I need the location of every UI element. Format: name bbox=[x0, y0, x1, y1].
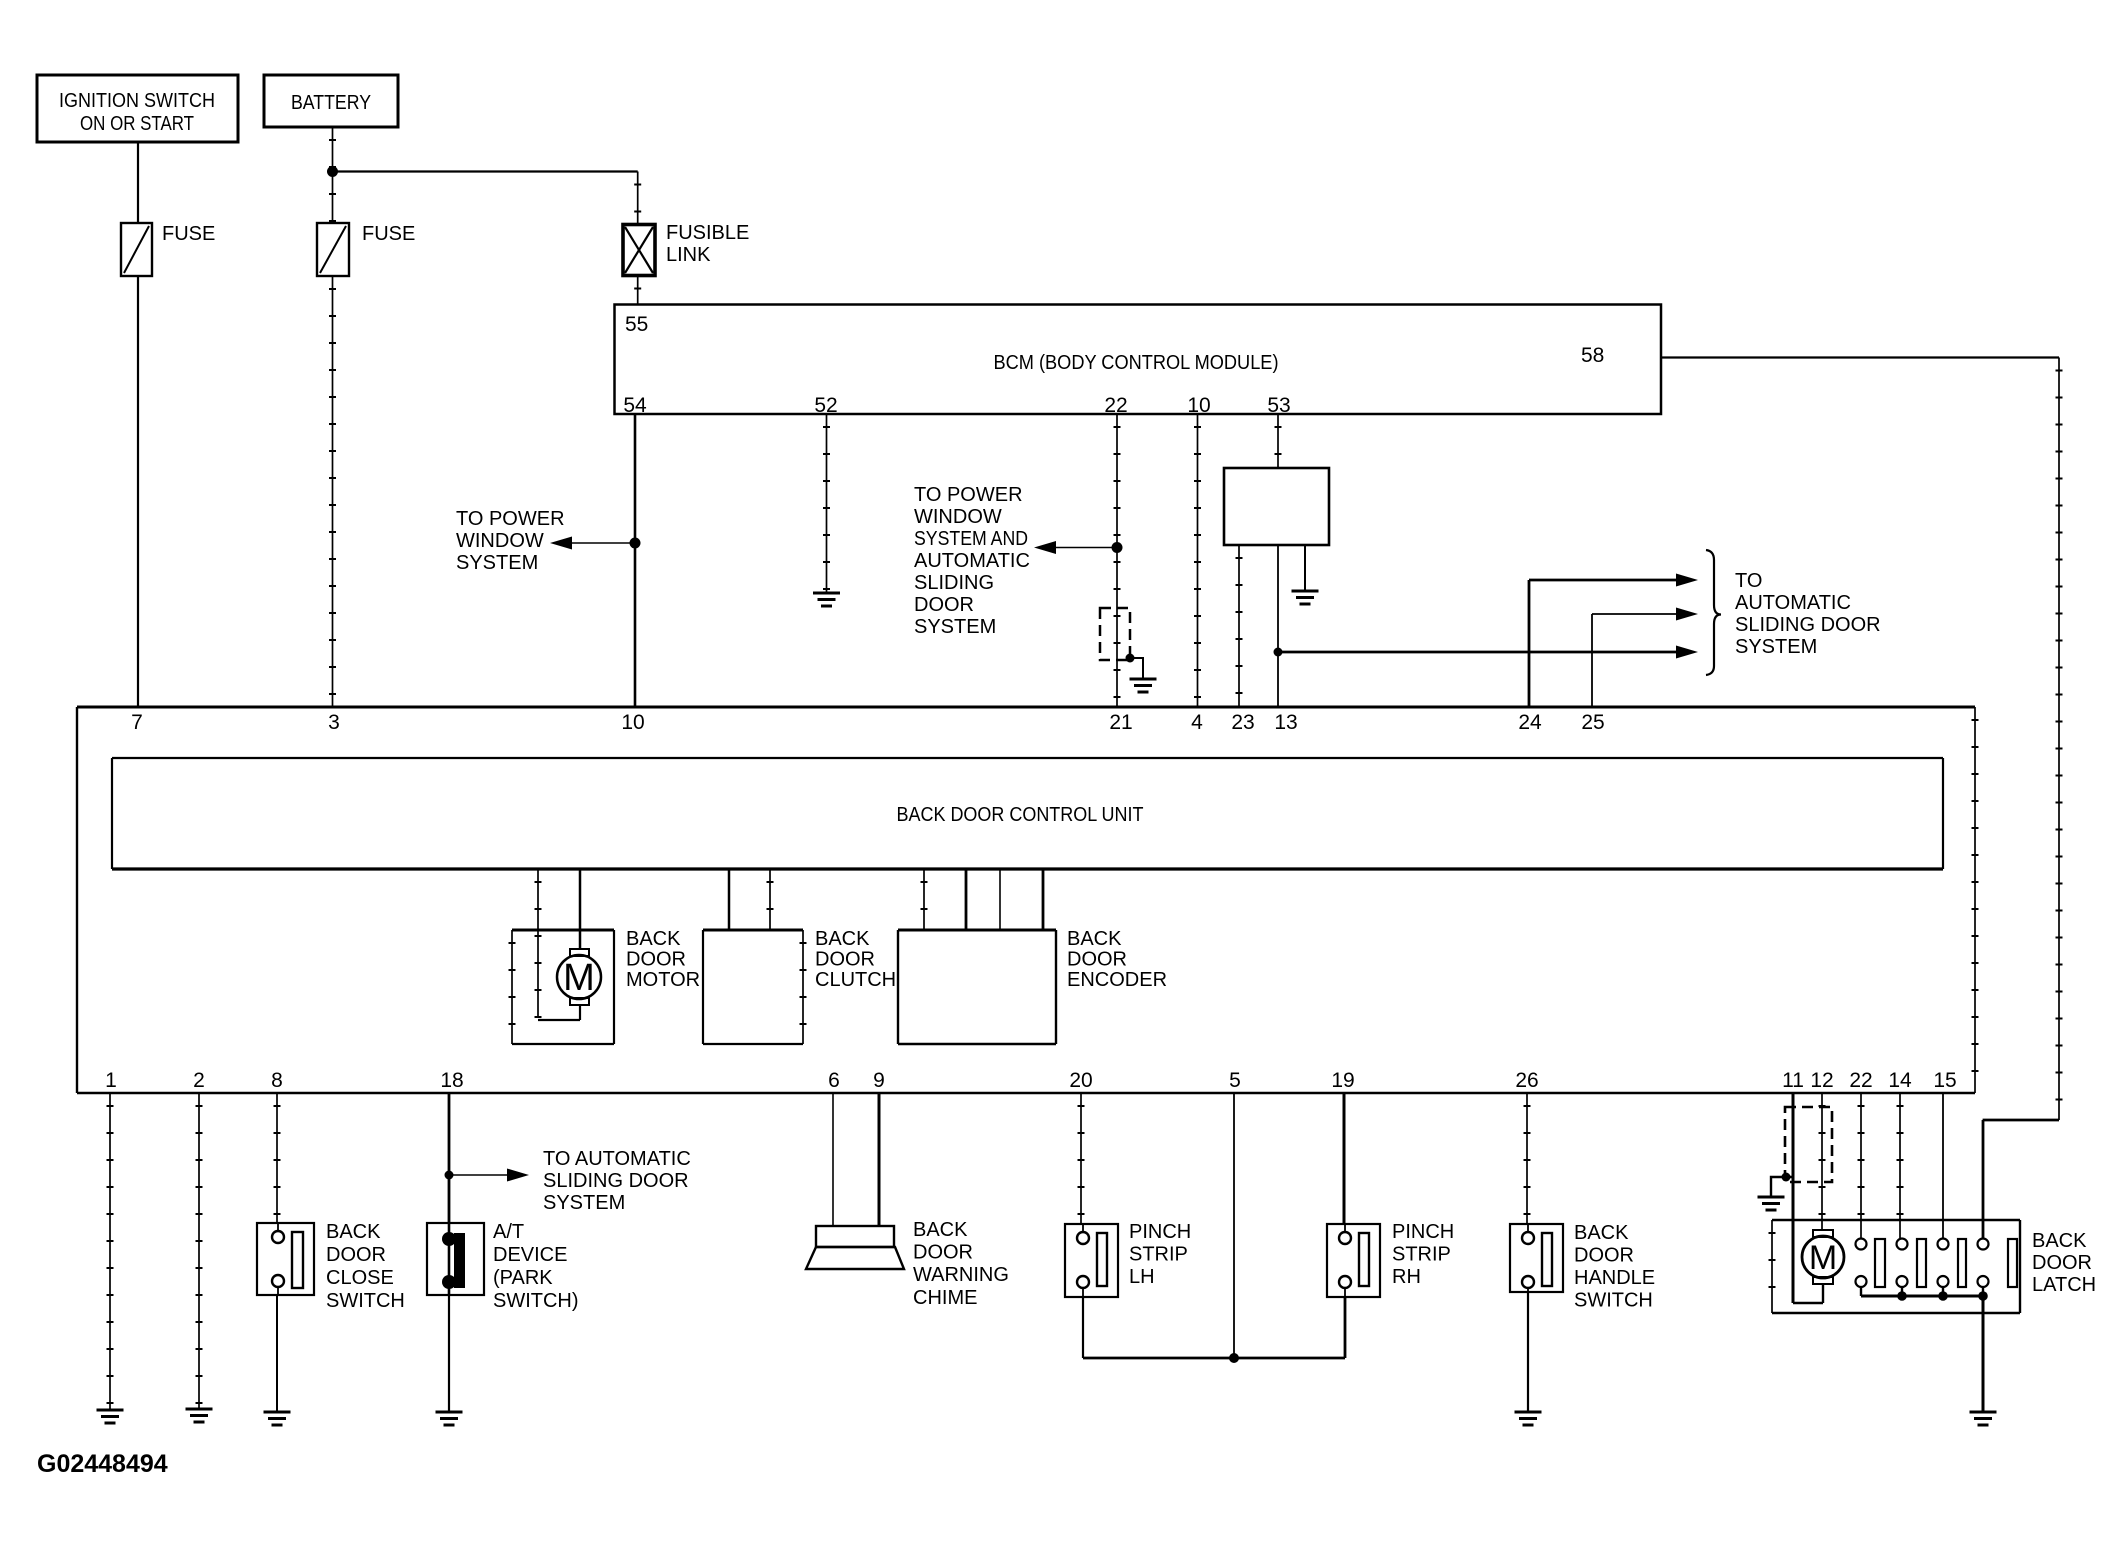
svg-text:SYSTEM AND: SYSTEM AND bbox=[914, 528, 1028, 550]
ground handle switch bbox=[1515, 1412, 1542, 1425]
svg-text:MOTOR: MOTOR bbox=[626, 969, 700, 991]
svg-text:TO POWER: TO POWER bbox=[914, 484, 1023, 506]
svg-text:SWITCH: SWITCH bbox=[326, 1290, 405, 1312]
svg-text:STRIP: STRIP bbox=[1129, 1244, 1188, 1266]
label A/T DEVICE PARK SWITCH bbox=[493, 1221, 579, 1312]
ground latch tap bbox=[1758, 1197, 1785, 1210]
back door control unit inner box bbox=[112, 758, 1943, 869]
svg-text:CLOSE: CLOSE bbox=[326, 1267, 394, 1289]
arrow to power window and sliding door system bbox=[1034, 541, 1117, 554]
wire pinch LH down bbox=[1082, 1297, 1084, 1358]
A/T device park switch S2 bbox=[427, 1223, 484, 1295]
svg-text:8: 8 bbox=[271, 1069, 283, 1092]
wire to back door motor right bbox=[579, 869, 582, 949]
wire BCM 10 to unit pin 4 bbox=[1197, 414, 1199, 707]
battery box bbox=[264, 75, 398, 127]
wire BCM 53 to relay box bbox=[1277, 414, 1279, 468]
wire to back door clutch left bbox=[728, 869, 731, 930]
svg-text:A/T: A/T bbox=[493, 1221, 524, 1243]
svg-text:BCM (BODY CONTROL MODULE): BCM (BODY CONTROL MODULE) bbox=[994, 352, 1279, 374]
BCM pin 58 label bbox=[1581, 344, 1604, 367]
ground pin 2 bbox=[186, 1409, 213, 1422]
svg-text:DOOR: DOOR bbox=[626, 948, 686, 970]
svg-text:BACK: BACK bbox=[1574, 1222, 1629, 1244]
unit bottom pin 15 label bbox=[1933, 1069, 1956, 1092]
label BACK DOOR CLOSE SWITCH bbox=[326, 1221, 405, 1312]
unit pin 7 label bbox=[131, 711, 143, 734]
svg-text:DOOR: DOOR bbox=[914, 594, 974, 616]
svg-text:24: 24 bbox=[1518, 711, 1542, 734]
connector (dashed) on wire 21 bbox=[1100, 608, 1130, 660]
wire BCM 52 to ground bbox=[826, 414, 828, 592]
svg-text:BACK: BACK bbox=[913, 1219, 968, 1241]
svg-text:11: 11 bbox=[1782, 1069, 1804, 1092]
svg-text:DOOR: DOOR bbox=[326, 1244, 386, 1266]
svg-text:55: 55 bbox=[625, 313, 648, 336]
BCM pin 10 label bbox=[1187, 394, 1210, 417]
label BACK DOOR LATCH bbox=[2032, 1230, 2096, 1296]
junction battery bbox=[327, 166, 338, 177]
svg-text:ENCODER: ENCODER bbox=[1067, 969, 1167, 991]
back door encoder box bbox=[898, 930, 1056, 1044]
junction pin 5 bus bbox=[1229, 1353, 1239, 1363]
svg-text:52: 52 bbox=[814, 394, 837, 417]
wire pin 2 to ground bbox=[198, 1093, 200, 1408]
svg-text:54: 54 bbox=[623, 394, 647, 417]
back door motor box bbox=[512, 930, 614, 1044]
svg-text:DOOR: DOOR bbox=[815, 948, 875, 970]
pinch strip LH switch bbox=[1065, 1224, 1118, 1297]
svg-text:2: 2 bbox=[193, 1069, 205, 1092]
unit bottom pin 14 label bbox=[1888, 1069, 1912, 1092]
unit bottom pin 22 label bbox=[1849, 1069, 1872, 1092]
wire battery to fuse2 bbox=[332, 127, 334, 223]
svg-text:BACK: BACK bbox=[626, 928, 681, 950]
arrow to power window system bbox=[550, 537, 635, 550]
unit bottom pin 20 label bbox=[1069, 1069, 1092, 1092]
label BACK DOOR HANDLE SWITCH bbox=[1574, 1222, 1655, 1312]
svg-text:SLIDING DOOR: SLIDING DOOR bbox=[1735, 614, 1881, 636]
relay box (unlabeled) bbox=[1224, 468, 1329, 545]
latch contact circles top bbox=[1856, 1239, 1989, 1250]
svg-text:PINCH: PINCH bbox=[1392, 1221, 1454, 1243]
svg-text:LH: LH bbox=[1129, 1266, 1155, 1288]
svg-text:WINDOW: WINDOW bbox=[914, 506, 1002, 528]
svg-text:4: 4 bbox=[1191, 711, 1203, 734]
junction on wire 22 bbox=[1112, 542, 1123, 553]
unit bottom pin 2 label bbox=[193, 1069, 205, 1092]
svg-text:21: 21 bbox=[1109, 711, 1132, 734]
svg-text:BACK: BACK bbox=[1067, 928, 1122, 950]
svg-text:LATCH: LATCH bbox=[2032, 1274, 2096, 1296]
wire fusible link to BCM pin 55 bbox=[637, 276, 639, 305]
unit bottom pin 11 label bbox=[1782, 1069, 1804, 1092]
wire pin 14 to latch bbox=[1899, 1093, 1901, 1238]
label BACK DOOR CLUTCH bbox=[815, 928, 896, 991]
pinch strip RH switch bbox=[1327, 1224, 1380, 1297]
unit pin 24 label bbox=[1518, 711, 1542, 734]
back door control unit outer box bbox=[77, 707, 1975, 1093]
junction on wire 18 bbox=[445, 1171, 454, 1180]
label TO POWER WINDOW SYSTEM bbox=[456, 508, 565, 574]
label TO AUTOMATIC SLIDING DOOR SYSTEM right bbox=[1735, 570, 1881, 658]
wire ignition to fuse1 bbox=[137, 142, 139, 223]
svg-text:14: 14 bbox=[1888, 1069, 1912, 1092]
svg-text:SWITCH: SWITCH bbox=[1574, 1290, 1653, 1312]
svg-text:TO: TO bbox=[1735, 570, 1762, 592]
svg-text:7: 7 bbox=[131, 711, 143, 734]
unit pin 10 label bbox=[621, 711, 644, 734]
svg-text:BATTERY: BATTERY bbox=[291, 92, 371, 114]
wire pin 9 to chime bbox=[878, 1093, 881, 1226]
svg-text:M: M bbox=[563, 957, 595, 999]
wire pin 1 to ground bbox=[109, 1093, 111, 1409]
wire pin 22 to latch bbox=[1860, 1093, 1862, 1238]
label PINCH STRIP LH bbox=[1129, 1221, 1191, 1288]
svg-text:SLIDING: SLIDING bbox=[914, 572, 994, 594]
svg-text:1: 1 bbox=[105, 1069, 117, 1092]
svg-text:FUSE: FUSE bbox=[162, 223, 215, 245]
svg-text:CLUTCH: CLUTCH bbox=[815, 969, 896, 991]
wire to back door clutch right bbox=[769, 869, 771, 930]
svg-text:58: 58 bbox=[1581, 344, 1604, 367]
back door clutch box bbox=[703, 930, 803, 1044]
wire handle switch to ground bbox=[1527, 1292, 1529, 1411]
unit pin 25 label bbox=[1581, 711, 1604, 734]
unit bottom pin 1 label bbox=[105, 1069, 117, 1092]
svg-text:BACK: BACK bbox=[2032, 1230, 2087, 1252]
wire to back door motor left bbox=[537, 869, 539, 1018]
svg-text:ON OR START: ON OR START bbox=[80, 113, 194, 135]
svg-text:DOOR: DOOR bbox=[2032, 1252, 2092, 1274]
wire pin 6 to chime bbox=[832, 1093, 834, 1226]
back door handle switch S3 bbox=[1510, 1224, 1563, 1292]
ignition switch box bbox=[37, 75, 238, 142]
wire pin 18 down bbox=[448, 1093, 451, 1223]
junction below connector bbox=[1126, 654, 1135, 663]
BCM pin 53 label bbox=[1267, 394, 1290, 417]
svg-text:M: M bbox=[1809, 1239, 1837, 1277]
svg-text:PINCH: PINCH bbox=[1129, 1221, 1191, 1243]
svg-text:AUTOMATIC: AUTOMATIC bbox=[1735, 592, 1851, 614]
unit bottom pin 12 label bbox=[1810, 1069, 1833, 1092]
ground pin 1 bbox=[97, 1410, 124, 1423]
svg-text:STRIP: STRIP bbox=[1392, 1244, 1451, 1266]
svg-text:SWITCH): SWITCH) bbox=[493, 1290, 579, 1312]
svg-text:TO AUTOMATIC: TO AUTOMATIC bbox=[543, 1148, 691, 1170]
unit bottom pin 18 label bbox=[440, 1069, 463, 1092]
BCM pin 55 label bbox=[625, 313, 648, 336]
wire BCM 58 to back door latch bbox=[1661, 358, 2059, 1240]
wire pin 11 to latch motor bbox=[1793, 1093, 1823, 1303]
svg-text:19: 19 bbox=[1331, 1069, 1354, 1092]
back door motor M1 bbox=[538, 949, 601, 1020]
svg-text:6: 6 bbox=[828, 1069, 840, 1092]
latch contact circles bottom bbox=[1856, 1276, 1989, 1287]
ground at relay bbox=[1292, 591, 1319, 604]
junction on wire 13 bbox=[1274, 648, 1283, 657]
brace bbox=[1706, 550, 1721, 675]
unit pin 3 label bbox=[328, 711, 340, 734]
svg-text:SYSTEM: SYSTEM bbox=[456, 552, 538, 574]
svg-text:DOOR: DOOR bbox=[1574, 1245, 1634, 1267]
wire A/T device to ground bbox=[448, 1295, 450, 1411]
svg-text:LINK: LINK bbox=[666, 244, 711, 266]
unit bottom pin 8 label bbox=[271, 1069, 283, 1092]
ground close switch bbox=[264, 1412, 291, 1425]
svg-text:FUSIBLE: FUSIBLE bbox=[666, 222, 749, 244]
svg-text:HANDLE: HANDLE bbox=[1574, 1267, 1655, 1289]
latch bottom bus bbox=[1861, 1287, 1983, 1296]
svg-text:12: 12 bbox=[1810, 1069, 1833, 1092]
wire tap to ground bbox=[1771, 1177, 1793, 1196]
unit pin 21 label bbox=[1109, 711, 1132, 734]
fuse F1 bbox=[121, 223, 215, 276]
BCM pin 52 label bbox=[814, 394, 837, 417]
svg-text:20: 20 bbox=[1069, 1069, 1092, 1092]
latch motor M2 bbox=[1802, 1230, 1844, 1284]
svg-text:53: 53 bbox=[1267, 394, 1290, 417]
fuse F2 bbox=[317, 223, 415, 276]
bus pinch strips bbox=[1083, 1357, 1345, 1360]
svg-text:SYSTEM: SYSTEM bbox=[914, 616, 996, 638]
label BACK DOOR ENCODER bbox=[1067, 928, 1167, 991]
svg-text:DOOR: DOOR bbox=[1067, 948, 1127, 970]
svg-text:10: 10 bbox=[1187, 394, 1210, 417]
fusible link FL bbox=[623, 222, 749, 276]
svg-text:(PARK: (PARK bbox=[493, 1267, 553, 1289]
svg-text:WARNING: WARNING bbox=[913, 1264, 1009, 1286]
BCM pin 54 label bbox=[623, 394, 647, 417]
label TO POWER WINDOW SYSTEM AND AUTOMATIC SLIDING DOOR SYSTEM bbox=[914, 484, 1030, 638]
wire pin 5 to bus bbox=[1233, 1093, 1235, 1358]
svg-text:BACK DOOR CONTROL UNIT: BACK DOOR CONTROL UNIT bbox=[897, 804, 1144, 826]
svg-text:18: 18 bbox=[440, 1069, 463, 1092]
svg-text:15: 15 bbox=[1933, 1069, 1956, 1092]
svg-text:SLIDING DOOR: SLIDING DOOR bbox=[543, 1170, 689, 1192]
unit bottom pin 26 label bbox=[1515, 1069, 1538, 1092]
junctions latch bus bbox=[1897, 1291, 1988, 1301]
arrow wire 24 to sliding door system bbox=[1529, 574, 1698, 708]
wire relay to unit pin 23 bbox=[1238, 545, 1240, 707]
wire pin 15 to latch bbox=[1942, 1093, 1944, 1238]
svg-text:FUSE: FUSE bbox=[362, 223, 415, 245]
svg-text:RH: RH bbox=[1392, 1266, 1421, 1288]
wire BCM 54 to unit pin 10 bbox=[634, 414, 637, 707]
wire junction to ground bbox=[1130, 658, 1143, 679]
wire close switch to ground bbox=[276, 1296, 278, 1411]
svg-text:DOOR: DOOR bbox=[913, 1242, 973, 1264]
label TO AUTOMATIC SLIDING DOOR SYSTEM left bbox=[543, 1148, 691, 1214]
svg-text:SYSTEM: SYSTEM bbox=[1735, 636, 1817, 658]
wire fuse1 to pin 7 bbox=[137, 276, 139, 707]
wire relay to ground bbox=[1304, 545, 1306, 590]
svg-text:10: 10 bbox=[621, 711, 644, 734]
svg-text:3: 3 bbox=[328, 711, 340, 734]
wire pin 19 to pinch strip RH bbox=[1343, 1093, 1346, 1224]
svg-text:SYSTEM: SYSTEM bbox=[543, 1192, 625, 1214]
svg-text:22: 22 bbox=[1104, 394, 1127, 417]
svg-text:G02448494: G02448494 bbox=[37, 1450, 168, 1478]
svg-text:25: 25 bbox=[1581, 711, 1604, 734]
arrow wire 25 to sliding door system bbox=[1592, 608, 1698, 708]
wire relay to unit pin 13 bbox=[1277, 545, 1279, 707]
svg-text:BACK: BACK bbox=[815, 928, 870, 950]
svg-text:AUTOMATIC: AUTOMATIC bbox=[914, 550, 1030, 572]
svg-text:23: 23 bbox=[1231, 711, 1254, 734]
wire pin 12 to latch motor bbox=[1821, 1093, 1823, 1230]
wires to back door encoder bbox=[924, 869, 1043, 930]
arrow wire 18 to sliding door system bbox=[449, 1169, 529, 1182]
unit pin 4 label bbox=[1191, 711, 1203, 734]
svg-text:26: 26 bbox=[1515, 1069, 1538, 1092]
wire fuse2 to pin 3 bbox=[332, 276, 334, 707]
label BACK DOOR WARNING CHIME bbox=[913, 1219, 1009, 1309]
junction ground tap wire 11 bbox=[1782, 1173, 1791, 1182]
svg-text:13: 13 bbox=[1274, 711, 1297, 734]
label PINCH STRIP RH bbox=[1392, 1221, 1454, 1288]
unit bottom pin 6 label bbox=[828, 1069, 840, 1092]
ground latch bbox=[1970, 1412, 1997, 1425]
svg-text:CHIME: CHIME bbox=[913, 1287, 977, 1309]
wire pin 26 to handle switch bbox=[1526, 1093, 1528, 1224]
BCM pin 22 label bbox=[1104, 394, 1127, 417]
unit bottom pin 9 label bbox=[873, 1069, 885, 1092]
wire latch to ground bbox=[1982, 1296, 1985, 1411]
ground at BCM 52 bbox=[813, 593, 840, 606]
svg-text:22: 22 bbox=[1849, 1069, 1872, 1092]
svg-text:DEVICE: DEVICE bbox=[493, 1244, 567, 1266]
svg-text:9: 9 bbox=[873, 1069, 885, 1092]
wire BCM 22 to unit pin 21 bbox=[1116, 414, 1118, 707]
unit pin 23 label bbox=[1231, 711, 1254, 734]
arrow wire 13 to sliding door system bbox=[1278, 646, 1698, 659]
figure id G02448494 bbox=[37, 1450, 168, 1478]
unit bottom pin 5 label bbox=[1229, 1069, 1241, 1092]
back door close switch S1 bbox=[257, 1223, 314, 1295]
svg-text:TO POWER: TO POWER bbox=[456, 508, 565, 530]
svg-text:5: 5 bbox=[1229, 1069, 1241, 1092]
svg-text:WINDOW: WINDOW bbox=[456, 530, 544, 552]
unit bottom pin 19 label bbox=[1331, 1069, 1354, 1092]
ground A/T device bbox=[436, 1412, 463, 1425]
junction on wire 54 bbox=[630, 538, 641, 549]
wire pin 20 to pinch strip LH bbox=[1080, 1093, 1082, 1224]
BCM (Body Control Module) box bbox=[615, 305, 1662, 415]
unit pin 13 label bbox=[1274, 711, 1297, 734]
back door latch box bbox=[1772, 1220, 2020, 1313]
wire pin 8 to close switch bbox=[276, 1093, 278, 1223]
wire pinch RH down bbox=[1344, 1297, 1347, 1358]
wire battery junction to fusible link bbox=[333, 172, 638, 225]
latch slots bbox=[1875, 1239, 2017, 1287]
ground at wire 21 tap bbox=[1130, 679, 1157, 692]
back door warning chime bbox=[806, 1226, 904, 1269]
label BACK DOOR MOTOR bbox=[626, 928, 700, 991]
svg-text:BACK: BACK bbox=[326, 1221, 381, 1243]
connector (dashed) on wires 11-12 bbox=[1785, 1107, 1832, 1182]
svg-text:IGNITION SWITCH: IGNITION SWITCH bbox=[59, 90, 215, 112]
